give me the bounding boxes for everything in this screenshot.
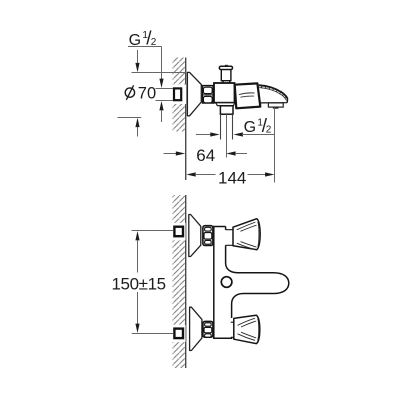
dimension 64 right arrow xyxy=(226,151,235,155)
diameter 70 lower extension line xyxy=(118,117,142,119)
supply pipe extension lines (top drawing) xyxy=(156,89,174,101)
diameter 70 upper extension line xyxy=(132,72,186,74)
dimension 64 left tail xyxy=(164,153,178,155)
dimension 150 upper shaft xyxy=(137,240,139,273)
wall hatching (top view, bottom drawing) xyxy=(173,195,186,368)
diverter knob cap xyxy=(219,66,232,69)
upper knob petal strokes xyxy=(237,222,259,250)
wall edge line (top drawing) xyxy=(185,58,187,181)
G1/2 arrow up xyxy=(159,101,163,110)
lower supply fitting square xyxy=(174,329,183,339)
lower handle stem lines xyxy=(231,322,234,337)
dimension 144 left segment xyxy=(195,174,216,176)
dimension 144 right arrow xyxy=(265,172,274,176)
upper handle stem lines xyxy=(226,230,234,246)
label G1/2 (right) xyxy=(244,116,272,137)
lower union nut (bottom drawing) xyxy=(203,321,213,337)
dimension 150 lower extension line xyxy=(132,333,173,335)
spout top inner line xyxy=(259,88,286,101)
escutcheon cone (top drawing) xyxy=(187,72,201,115)
lower escutcheon (bottom drawing) xyxy=(190,307,202,350)
wall edge line (bottom drawing) xyxy=(185,195,187,368)
spout bottom edge xyxy=(261,102,287,104)
dimension 64 right tail xyxy=(235,153,247,155)
diverter knob stem xyxy=(223,81,230,83)
outlet centerline xyxy=(226,115,228,158)
dimension 64 left arrow xyxy=(176,151,185,155)
handle knob (side view) xyxy=(235,83,261,108)
column right edge upper segment xyxy=(225,227,227,264)
spout shading ticks xyxy=(261,86,286,99)
G1/2 right: arrow pointing left + underline xyxy=(234,132,243,136)
diverter knob cap top bump xyxy=(225,65,228,67)
dimension label G1/2 (top left) xyxy=(129,28,157,49)
handle shading strokes xyxy=(239,93,255,97)
diameter 70 arrow up xyxy=(135,118,139,127)
dimension 144 right segment xyxy=(248,174,267,176)
svg-text:144: 144 xyxy=(218,168,246,187)
dimension 150 arrow up xyxy=(135,231,139,240)
spout top edge xyxy=(259,85,288,99)
diameter 70 dimension upper tail xyxy=(137,50,139,64)
body column (bottom drawing) xyxy=(214,227,233,339)
aerator tab xyxy=(273,107,279,109)
supply fitting square G1/2 (top drawing) xyxy=(174,88,181,100)
diameter 70 arrow down xyxy=(135,63,139,72)
svg-text:64: 64 xyxy=(196,146,215,165)
white gap around lower supply square xyxy=(171,325,186,342)
valve body (top drawing) xyxy=(214,83,235,103)
aerator box xyxy=(268,103,283,107)
svg-text:70: 70 xyxy=(138,84,156,102)
dimension 150 lower shaft xyxy=(137,292,139,325)
diverter knob body xyxy=(221,70,231,81)
upper supply fitting square xyxy=(174,227,183,237)
lower handle knob (top view) xyxy=(234,315,260,343)
white gap around upper supply square xyxy=(171,223,186,240)
spout tip face xyxy=(286,99,288,103)
svg-text:G: G xyxy=(244,119,256,136)
dimension 144 right extension line xyxy=(274,107,276,182)
diameter 70 lower tail xyxy=(137,127,139,137)
dimension 150 arrow down xyxy=(135,324,139,333)
dimension 144 left arrow xyxy=(186,172,195,176)
dimension 150 upper extension line xyxy=(132,230,174,232)
union nut (top drawing) xyxy=(203,86,214,103)
spout arm (top view) with rounded end xyxy=(226,263,289,318)
upper escutcheon (bottom drawing) xyxy=(189,215,201,257)
G1/2 label underline (top left) xyxy=(128,46,162,48)
white gap around supply fitting (top drawing) xyxy=(171,85,187,105)
outlet flange under body xyxy=(216,103,235,106)
G1/2 dimension line lower tail xyxy=(161,110,163,122)
upper handle knob (top view) xyxy=(233,219,260,250)
label diameter 70 xyxy=(125,85,134,100)
outlet thread pipe xyxy=(221,114,233,139)
G1/2 arrow down xyxy=(159,79,163,88)
svg-text:150±15: 150±15 xyxy=(112,274,166,293)
svg-text:2: 2 xyxy=(266,124,272,135)
outlet collar xyxy=(220,106,233,114)
G1/2 dimension line upper part xyxy=(161,47,163,81)
G1/2 right: left-side arrow pointing right xyxy=(196,134,212,136)
wall hatching (side view, top drawing) xyxy=(173,58,186,132)
upper union nut (bottom drawing) xyxy=(203,226,213,246)
diverter circle (top view) xyxy=(221,277,232,288)
lower knob petal strokes xyxy=(238,318,259,340)
